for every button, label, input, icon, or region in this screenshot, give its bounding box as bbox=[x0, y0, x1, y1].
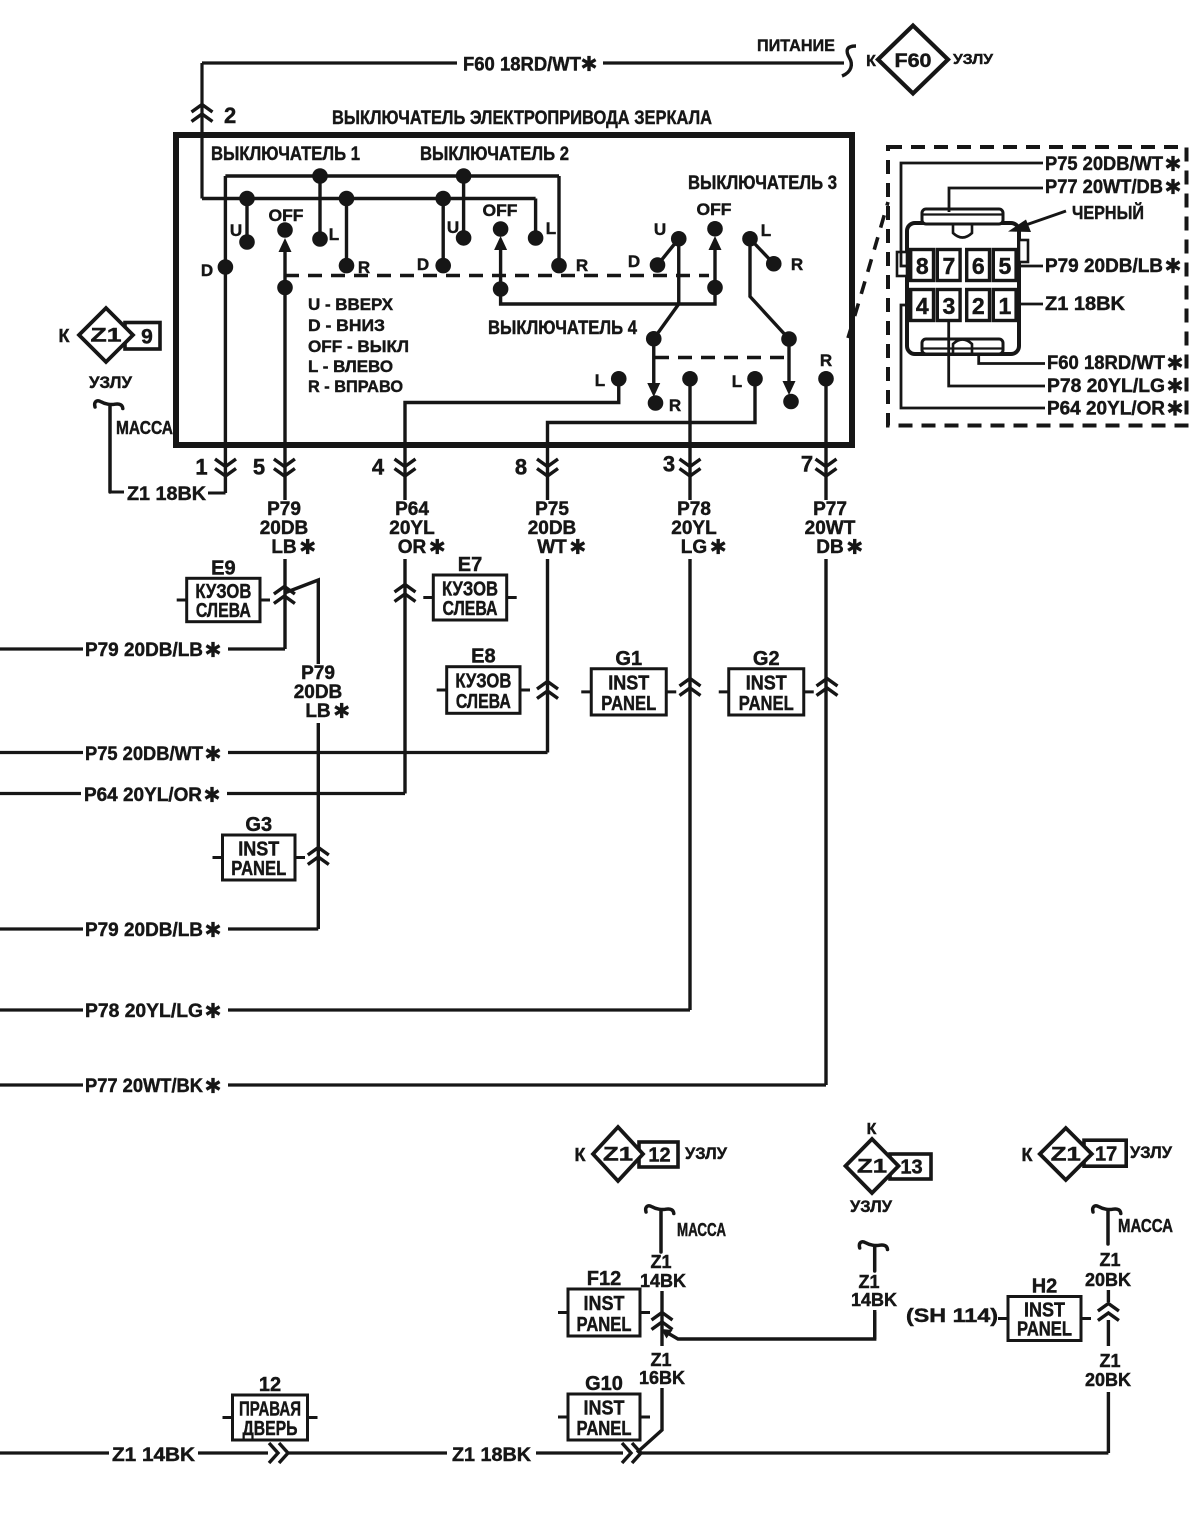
svg-text:20WT: 20WT bbox=[805, 518, 856, 539]
brace before K bbox=[842, 46, 856, 76]
svg-text:INST: INST bbox=[238, 838, 279, 860]
label P77 pin7 bbox=[801, 499, 876, 559]
node R1 top bbox=[339, 191, 355, 207]
svg-text:Z1 18BK: Z1 18BK bbox=[1045, 294, 1125, 315]
svg-text:E7: E7 bbox=[458, 554, 482, 576]
svg-text:P75: P75 bbox=[535, 499, 569, 520]
wire U3 drop bbox=[677, 239, 680, 304]
label P78 pin3 bbox=[667, 499, 736, 559]
svg-text:ВЫКЛЮЧАТЕЛЬ 1: ВЫКЛЮЧАТЕЛЬ 1 bbox=[211, 144, 360, 165]
dashed common line bbox=[285, 274, 709, 277]
dashed line switch4 bbox=[655, 356, 790, 359]
svg-text:МАССА: МАССА bbox=[1118, 1216, 1173, 1236]
svg-text:ВЫКЛЮЧАТЕЛЬ 4: ВЫКЛЮЧАТЕЛЬ 4 bbox=[488, 318, 637, 339]
connector G1 bbox=[680, 679, 701, 687]
svg-text:OFF: OFF bbox=[483, 201, 518, 220]
svg-text:P78: P78 bbox=[677, 499, 711, 520]
svg-text:L: L bbox=[761, 221, 771, 240]
svg-text:P64: P64 bbox=[395, 499, 429, 520]
svg-text:14BK: 14BK bbox=[640, 1271, 686, 1291]
connector 2 on feed wire bbox=[192, 105, 213, 113]
node D1 bbox=[218, 259, 234, 275]
svg-text:OFF: OFF bbox=[697, 200, 732, 219]
svg-text:U: U bbox=[654, 220, 666, 239]
bottom wire seg2 bbox=[198, 1451, 268, 1454]
power mirror switch box bbox=[176, 135, 852, 445]
label P75 pin8 bbox=[524, 499, 597, 559]
wire Z1 18BK to pin1 bbox=[208, 492, 226, 495]
connector ref F60 diamond bbox=[866, 26, 994, 94]
ground symbol G13 bbox=[859, 1242, 887, 1271]
wire G13 down bbox=[873, 1310, 876, 1339]
G2 box bbox=[719, 648, 814, 715]
svg-text:R - ВПРАВО: R - ВПРАВО bbox=[308, 377, 403, 396]
node L4b bbox=[747, 371, 763, 387]
leader F60 bbox=[979, 354, 1045, 364]
svg-text:U: U bbox=[230, 221, 242, 240]
svg-text:Z1: Z1 bbox=[91, 326, 123, 347]
wire pin7 vertical bbox=[824, 379, 827, 1085]
svg-text:1: 1 bbox=[195, 455, 207, 480]
svg-text:2: 2 bbox=[224, 103, 236, 128]
svg-text:P77 20WT/DB: P77 20WT/DB bbox=[1045, 177, 1163, 198]
svg-text:INST: INST bbox=[584, 1293, 625, 1315]
node OFF3 bbox=[707, 221, 723, 237]
connector pin4 bbox=[395, 459, 416, 467]
connector F12 bbox=[652, 1313, 673, 1321]
connector detail dashed frame bbox=[888, 147, 1187, 426]
svg-text:20YL: 20YL bbox=[671, 518, 717, 539]
wire L4a to pin4 bbox=[405, 379, 619, 794]
node S4 left top bbox=[646, 331, 662, 347]
H2 box bbox=[998, 1276, 1091, 1341]
connector G10 >> bbox=[622, 1443, 631, 1463]
svg-text:LB: LB bbox=[271, 537, 296, 558]
svg-text:ПРАВАЯ: ПРАВАЯ bbox=[239, 1398, 301, 1420]
wire B bus bbox=[202, 197, 536, 200]
svg-text:4: 4 bbox=[372, 455, 385, 480]
svg-text:D - ВНИЗ: D - ВНИЗ bbox=[308, 316, 385, 335]
bottom wire seg4 bbox=[641, 1451, 1108, 1454]
wire R1 drop bbox=[345, 199, 348, 266]
wire L2 drop bbox=[534, 199, 537, 239]
connector door >> bbox=[269, 1443, 278, 1463]
svg-text:P75 20DB/WT: P75 20DB/WT bbox=[85, 744, 203, 765]
svg-text:14BK: 14BK bbox=[851, 1290, 897, 1310]
wire diag to sw4 left bbox=[654, 304, 679, 339]
svg-text:P64 20YL/OR: P64 20YL/OR bbox=[84, 785, 202, 806]
wire F12 vertical bbox=[660, 1291, 663, 1346]
connector ref Z1 17 bbox=[1022, 1128, 1173, 1180]
svg-text:МАССА: МАССА bbox=[677, 1220, 726, 1240]
svg-text:3: 3 bbox=[943, 293, 956, 319]
connector H2 bbox=[1098, 1304, 1119, 1312]
svg-text:1: 1 bbox=[999, 293, 1012, 319]
connector E8 bbox=[537, 682, 558, 690]
leader P75 bbox=[901, 163, 1043, 266]
connector body bbox=[897, 209, 1028, 354]
svg-text:20BK: 20BK bbox=[1085, 1270, 1131, 1290]
svg-text:К: К bbox=[1022, 1145, 1034, 1165]
svg-text:H2: H2 bbox=[1032, 1276, 1058, 1298]
E8 box bbox=[437, 646, 530, 714]
node D2 bbox=[435, 258, 451, 274]
svg-text:D: D bbox=[201, 261, 213, 280]
svg-text:U - ВВЕРХ: U - ВВЕРХ bbox=[308, 295, 394, 314]
svg-text:7: 7 bbox=[943, 253, 956, 279]
svg-text:R: R bbox=[669, 396, 681, 415]
switch4 right arrow bbox=[787, 339, 790, 382]
E9 box bbox=[177, 557, 270, 622]
switch3 blade L-R bbox=[750, 239, 774, 264]
svg-text:P79 20DB/LB: P79 20DB/LB bbox=[85, 920, 203, 941]
svg-text:PANEL: PANEL bbox=[601, 693, 656, 715]
svg-text:L - ВЛЕВО: L - ВЛЕВО bbox=[308, 357, 393, 376]
svg-text:Z1: Z1 bbox=[1051, 1145, 1082, 1166]
wire row P78 right bbox=[228, 1008, 690, 1011]
ground symbol left bbox=[95, 401, 123, 492]
svg-text:D: D bbox=[417, 255, 429, 274]
svg-text:13: 13 bbox=[900, 1157, 922, 1179]
connector G3 bbox=[308, 848, 329, 856]
bottom wire seg1 bbox=[0, 1451, 109, 1454]
svg-text:G3: G3 bbox=[245, 814, 272, 836]
svg-text:P79 20DB/LB: P79 20DB/LB bbox=[85, 640, 203, 661]
svg-text:СЛЕВА: СЛЕВА bbox=[196, 600, 251, 622]
svg-text:8: 8 bbox=[515, 455, 527, 480]
svg-text:Z1: Z1 bbox=[603, 1145, 634, 1166]
wire row P79b left bbox=[0, 927, 83, 930]
svg-text:МАССА: МАССА bbox=[116, 418, 173, 438]
node S4 right low bbox=[783, 394, 799, 410]
svg-text:G1: G1 bbox=[615, 648, 642, 670]
wire row P78 left bbox=[0, 1008, 83, 1011]
svg-text:F60 18RD/WT: F60 18RD/WT bbox=[463, 55, 581, 76]
svg-text:УЗЛУ: УЗЛУ bbox=[953, 51, 994, 68]
svg-text:PANEL: PANEL bbox=[577, 1314, 632, 1336]
connector pin7 bbox=[816, 459, 837, 467]
G10 box bbox=[558, 1373, 650, 1440]
node pin3 contact bbox=[682, 371, 698, 387]
svg-text:7: 7 bbox=[801, 452, 813, 477]
wire row P64 right bbox=[227, 792, 405, 795]
wire F60 feed horizontal bbox=[202, 61, 844, 64]
svg-text:WT: WT bbox=[537, 537, 567, 558]
svg-text:ЧЕРНЫЙ: ЧЕРНЫЙ bbox=[1072, 202, 1144, 223]
svg-text:P79 20DB/LB: P79 20DB/LB bbox=[1045, 256, 1163, 277]
svg-text:R: R bbox=[358, 258, 370, 277]
wire U1 drop bbox=[245, 199, 248, 243]
leader P77 bbox=[949, 188, 1043, 212]
bottom wire seg3b bbox=[536, 1451, 623, 1454]
connector ref Z1 12 bbox=[575, 1127, 728, 1181]
svg-text:D: D bbox=[628, 252, 640, 271]
wire D2 drop bbox=[442, 199, 445, 266]
svg-text:20DB: 20DB bbox=[528, 518, 577, 539]
F12 box bbox=[558, 1268, 650, 1336]
switch4 left arrow bbox=[652, 339, 655, 384]
node L1 bbox=[312, 231, 328, 247]
label F60 18RD/WT* on wire bbox=[457, 48, 603, 76]
svg-text:INST: INST bbox=[746, 673, 787, 695]
svg-text:ВЫКЛЮЧАТЕЛЬ 2: ВЫКЛЮЧАТЕЛЬ 2 bbox=[420, 144, 569, 165]
node R1 bbox=[339, 258, 355, 274]
switch1 wiper arrow bbox=[283, 245, 286, 288]
svg-text:ВЫКЛЮЧАТЕЛЬ ЭЛЕКТРОПРИВОДА ЗЕР: ВЫКЛЮЧАТЕЛЬ ЭЛЕКТРОПРИВОДА ЗЕРКАЛА bbox=[332, 108, 712, 129]
svg-text:Z1: Z1 bbox=[650, 1252, 671, 1272]
svg-text:R: R bbox=[791, 255, 803, 274]
node OFF2 bbox=[493, 221, 509, 237]
right door box bbox=[223, 1374, 318, 1440]
svg-text:Z1 18BK: Z1 18BK bbox=[127, 484, 206, 505]
svg-text:L: L bbox=[732, 372, 742, 391]
svg-text:17: 17 bbox=[1095, 1144, 1117, 1166]
svg-text:20BK: 20BK bbox=[1085, 1370, 1131, 1390]
svg-text:L: L bbox=[329, 225, 339, 244]
wire branch to Z1-13 bbox=[666, 1312, 875, 1339]
wire pin1 vertical bbox=[224, 176, 227, 493]
node S4 left low bbox=[648, 395, 664, 411]
wire pin3 vertical bbox=[688, 379, 691, 1010]
node D3 bbox=[650, 257, 666, 273]
node S2 top bbox=[456, 168, 472, 184]
svg-text:INST: INST bbox=[608, 673, 649, 695]
wire L4b to pin8 bbox=[548, 379, 756, 753]
switch3 wiper arrow bbox=[713, 243, 716, 288]
connector pin5 bbox=[274, 459, 295, 467]
node OFF1 common bbox=[277, 280, 293, 296]
wire G10 to bottom bbox=[637, 1388, 662, 1453]
ground symbol G17 bbox=[1093, 1206, 1121, 1244]
node OFF2 common bbox=[493, 281, 509, 297]
wire H2 to bottom bbox=[1107, 1392, 1110, 1453]
svg-text:P64 20YL/OR: P64 20YL/OR bbox=[1047, 399, 1165, 420]
svg-text:E9: E9 bbox=[211, 557, 235, 579]
svg-text:OFF - ВЫКЛ: OFF - ВЫКЛ bbox=[308, 337, 409, 356]
wire feed vertical pin2 bbox=[200, 63, 203, 199]
svg-text:4: 4 bbox=[916, 293, 929, 319]
svg-text:L: L bbox=[595, 371, 605, 390]
wire L3 drop bbox=[750, 239, 789, 339]
wire row P79a left bbox=[0, 647, 83, 650]
wire L1 drop bbox=[318, 176, 321, 239]
svg-text:G2: G2 bbox=[753, 648, 780, 670]
node U3 bbox=[671, 231, 687, 247]
connector pins row 4321 bbox=[911, 290, 1016, 321]
label P64 pin4 bbox=[385, 499, 454, 559]
svg-text:6: 6 bbox=[972, 253, 985, 279]
node L2 bbox=[528, 230, 544, 246]
svg-text:R: R bbox=[576, 256, 588, 275]
svg-text:Z1: Z1 bbox=[858, 1272, 879, 1292]
svg-text:СЛЕВА: СЛЕВА bbox=[456, 691, 511, 713]
svg-text:К: К bbox=[575, 1145, 587, 1165]
svg-text:5: 5 bbox=[999, 253, 1012, 279]
leader P79 bbox=[1019, 265, 1043, 268]
svg-text:12: 12 bbox=[259, 1374, 281, 1396]
svg-text:20DB: 20DB bbox=[294, 682, 343, 703]
svg-text:УЗЛУ: УЗЛУ bbox=[850, 1197, 892, 1216]
connector E9 bbox=[274, 587, 295, 595]
dashed pointer bbox=[848, 202, 888, 338]
svg-text:Z1: Z1 bbox=[1099, 1250, 1120, 1270]
label P79 pin5 bbox=[256, 499, 329, 559]
svg-text:OR: OR bbox=[398, 537, 427, 558]
node L4a bbox=[611, 371, 627, 387]
connector ref Z1 9 bbox=[59, 308, 161, 392]
leader P78 bbox=[949, 321, 1045, 386]
svg-text:9: 9 bbox=[141, 326, 153, 349]
node R2 bbox=[551, 258, 567, 274]
wire common link bbox=[501, 288, 715, 305]
svg-text:5: 5 bbox=[253, 455, 265, 480]
svg-text:ДВЕРЬ: ДВЕРЬ bbox=[243, 1418, 298, 1440]
svg-text:P75 20DB/WT: P75 20DB/WT bbox=[1045, 154, 1163, 175]
wire A top bus bbox=[225, 174, 559, 177]
wire pin5 vertical bbox=[283, 288, 286, 650]
svg-text:Z1: Z1 bbox=[1099, 1351, 1120, 1371]
svg-text:ПИТАНИЕ: ПИТАНИЕ bbox=[757, 36, 835, 55]
G3 box bbox=[213, 814, 306, 880]
svg-text:16BK: 16BK bbox=[639, 1368, 685, 1388]
node R4b bbox=[818, 371, 834, 387]
E7 box bbox=[423, 554, 516, 620]
svg-text:P78 20YL/LG: P78 20YL/LG bbox=[85, 1001, 203, 1022]
svg-text:PANEL: PANEL bbox=[739, 693, 794, 715]
svg-text:LG: LG bbox=[681, 537, 707, 558]
svg-text:Z1: Z1 bbox=[857, 1157, 888, 1178]
svg-text:E8: E8 bbox=[471, 646, 495, 668]
wire row P77 right bbox=[228, 1083, 826, 1086]
wire row P79a right bbox=[228, 647, 285, 650]
connector pin1 bbox=[215, 459, 236, 467]
node D2 top bbox=[435, 191, 451, 207]
leader Z1 18BK bbox=[1019, 303, 1043, 306]
svg-text:Z1 14BK: Z1 14BK bbox=[112, 1445, 195, 1466]
connector pin8 bbox=[537, 459, 558, 467]
svg-text:20DB: 20DB bbox=[260, 518, 309, 539]
switch3 blade D-U bbox=[658, 239, 679, 265]
connector pins row 8765 bbox=[911, 250, 1016, 281]
svg-text:СЛЕВА: СЛЕВА bbox=[443, 598, 498, 620]
svg-text:20YL: 20YL bbox=[389, 518, 435, 539]
svg-text:2: 2 bbox=[972, 293, 985, 319]
svg-text:P79: P79 bbox=[301, 663, 335, 684]
svg-text:P79: P79 bbox=[267, 499, 301, 520]
svg-text:8: 8 bbox=[916, 253, 929, 279]
svg-text:OFF: OFF bbox=[269, 206, 304, 225]
wire row P77 left bbox=[0, 1083, 83, 1086]
wire R2 drop bbox=[557, 176, 560, 266]
svg-text:P78 20YL/LG: P78 20YL/LG bbox=[1047, 376, 1165, 397]
wire ground to Z1 18BK bbox=[110, 491, 124, 494]
svg-text:INST: INST bbox=[584, 1398, 625, 1420]
svg-text:К: К bbox=[867, 1121, 877, 1138]
svg-text:(SH 114): (SH 114) bbox=[906, 1306, 998, 1327]
node U1 bbox=[239, 234, 255, 250]
G1 box bbox=[581, 648, 676, 715]
node R3 bbox=[766, 256, 782, 272]
svg-text:Z1 18BK: Z1 18BK bbox=[452, 1445, 531, 1466]
node S4 right top bbox=[781, 331, 797, 347]
node L1 top bbox=[312, 168, 328, 184]
wire row P75 left bbox=[0, 751, 83, 754]
wire U2 drop bbox=[462, 176, 465, 238]
svg-text:3: 3 bbox=[663, 452, 675, 477]
svg-text:УЗЛУ: УЗЛУ bbox=[89, 373, 132, 392]
svg-text:КУЗОВ: КУЗОВ bbox=[455, 671, 511, 693]
wire row P75 right bbox=[228, 751, 548, 754]
connector ref Z1 13 bbox=[846, 1139, 932, 1216]
node L3 bbox=[742, 231, 758, 247]
label ЧЕРНЫЙ arrow bbox=[1020, 211, 1066, 227]
wire P79 branch bbox=[284, 580, 318, 929]
svg-text:Z1: Z1 bbox=[650, 1350, 671, 1370]
svg-text:УЗЛУ: УЗЛУ bbox=[1130, 1143, 1172, 1162]
svg-text:P77: P77 bbox=[813, 499, 847, 520]
svg-text:ВЫКЛЮЧАТЕЛЬ 3: ВЫКЛЮЧАТЕЛЬ 3 bbox=[688, 173, 837, 194]
svg-text:PANEL: PANEL bbox=[231, 858, 286, 880]
wire H2 vertical a bbox=[1107, 1290, 1110, 1302]
svg-text:P77 20WT/BK: P77 20WT/BK bbox=[85, 1076, 203, 1097]
svg-text:G10: G10 bbox=[585, 1373, 623, 1395]
connector pin3 bbox=[680, 459, 701, 467]
svg-text:КУЗОВ: КУЗОВ bbox=[442, 578, 498, 600]
switch2 wiper arrow bbox=[499, 243, 502, 289]
node U2 bbox=[456, 230, 472, 246]
svg-text:F12: F12 bbox=[587, 1268, 621, 1290]
svg-text:К: К bbox=[866, 53, 876, 70]
connector G2 bbox=[817, 679, 838, 687]
svg-text:R: R bbox=[820, 351, 832, 370]
label P79 branch bbox=[290, 663, 363, 723]
svg-text:К: К bbox=[59, 326, 71, 346]
wire row P79b right bbox=[228, 927, 318, 930]
svg-text:F60: F60 bbox=[895, 51, 932, 72]
wire H2 vertical b bbox=[1107, 1320, 1110, 1346]
svg-text:DB: DB bbox=[816, 537, 843, 558]
ground symbol G12 bbox=[646, 1206, 674, 1252]
bottom wire seg3 bbox=[288, 1451, 447, 1454]
svg-text:LB: LB bbox=[305, 701, 330, 722]
svg-text:PANEL: PANEL bbox=[1017, 1319, 1072, 1341]
node U1 top bbox=[239, 191, 255, 207]
leader P64 bbox=[901, 305, 1045, 408]
svg-text:F60 18RD/WT: F60 18RD/WT bbox=[1047, 353, 1165, 374]
svg-text:L: L bbox=[546, 219, 556, 238]
svg-text:12: 12 bbox=[648, 1145, 670, 1167]
svg-text:PANEL: PANEL bbox=[577, 1418, 632, 1440]
svg-text:U: U bbox=[447, 218, 459, 237]
svg-text:УЗЛУ: УЗЛУ bbox=[685, 1144, 727, 1163]
node OFF3 common bbox=[707, 280, 723, 296]
node OFF1 bbox=[277, 222, 293, 238]
wire row P64 left bbox=[0, 792, 81, 795]
connector E7 bbox=[395, 585, 416, 593]
